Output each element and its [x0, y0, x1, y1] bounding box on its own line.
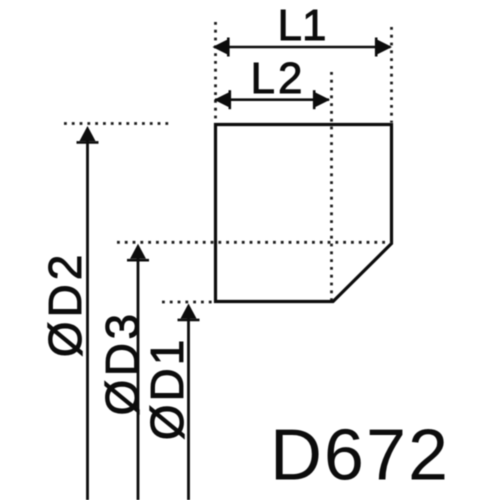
- arrowhead D3: [127, 244, 149, 260]
- extension line D1 level (dotted, y=302): [162, 301, 212, 304]
- arrowhead L2 left: [214, 90, 230, 109]
- extension line D3 level (dotted, y=242.3): [117, 241, 391, 244]
- extension line middle (dotted, x=331.5): [330, 72, 333, 300]
- leader line D3 (vertical arrow): [137, 258, 140, 500]
- dimension line L1: [214, 46, 391, 49]
- dimension line L2: [215, 98, 329, 101]
- leader line D2 (vertical arrow): [86, 140, 89, 500]
- svg-text:L2: L2: [251, 54, 306, 103]
- arrowhead L1 left: [213, 38, 229, 57]
- svg-text:L1: L1: [278, 1, 327, 50]
- arrowhead D2: [77, 126, 99, 142]
- extension line left (dotted, x=215.5): [214, 22, 217, 123]
- svg-text:ØD2: ØD2: [39, 251, 91, 358]
- svg-text:D672: D672: [270, 416, 450, 496]
- svg-text:ØD1: ØD1: [141, 337, 193, 441]
- extension line D2 level (dotted, y=123.5): [64, 122, 169, 125]
- arrowhead L1 right: [376, 38, 392, 57]
- arrowhead D1: [178, 304, 200, 320]
- extension line right (dotted, x=391.5): [390, 27, 393, 123]
- arrowhead L2 right: [314, 90, 330, 109]
- part outline (chamfered body): [216, 125, 392, 302]
- leader line D1 (vertical arrow): [187, 318, 190, 500]
